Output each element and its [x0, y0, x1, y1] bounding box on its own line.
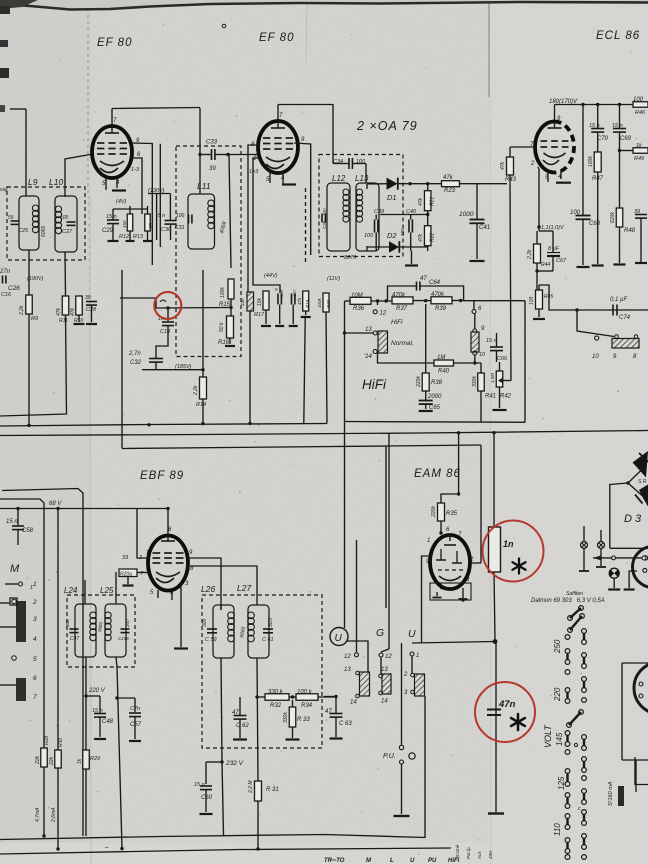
svg-text:47k: 47k — [443, 175, 454, 181]
svg-text:C37: C37 — [292, 289, 297, 297]
svg-text:12: 12 — [344, 654, 351, 660]
svg-text:C66: C66 — [497, 356, 508, 362]
svg-text:3: 3 — [33, 616, 37, 623]
svg-text:10: 10 — [479, 352, 486, 358]
svg-text:R37: R37 — [396, 306, 408, 312]
svg-text:470k: 470k — [392, 293, 406, 299]
svg-text:(44V): (44V) — [264, 273, 278, 279]
svg-text:15 n: 15 n — [194, 782, 205, 788]
svg-text:330k: 330k — [472, 376, 478, 387]
svg-text:10M: 10M — [351, 293, 363, 299]
svg-text:2,6mA: 2,6mA — [51, 807, 57, 823]
svg-text:Saffiten: Saffiten — [566, 591, 583, 597]
svg-text:15 n: 15 n — [6, 519, 18, 525]
svg-text:C30: C30 — [161, 227, 172, 233]
svg-text:C60: C60 — [201, 795, 213, 801]
svg-text:C68: C68 — [589, 221, 601, 227]
svg-text:C69: C69 — [620, 136, 632, 142]
svg-text:15k: 15k — [257, 297, 263, 306]
svg-text:2 ×OA 79: 2 ×OA 79 — [356, 119, 418, 133]
svg-text:4,7mA: 4,7mA — [35, 807, 41, 822]
svg-text:C156: C156 — [118, 636, 129, 641]
svg-text:250: 250 — [553, 639, 562, 654]
svg-text:3C0: 3C0 — [268, 618, 274, 627]
svg-text:13: 13 — [344, 667, 351, 673]
svg-text:100k: 100k — [317, 297, 322, 308]
svg-text:100: 100 — [400, 228, 405, 236]
svg-text:1n: 1n — [503, 539, 514, 549]
svg-text:300: 300 — [65, 619, 70, 627]
svg-text:R11: R11 — [59, 318, 68, 324]
svg-text:G: G — [376, 627, 384, 639]
svg-text:33: 33 — [122, 555, 129, 561]
svg-text:EBF 89: EBF 89 — [140, 470, 184, 482]
svg-text:22k: 22k — [35, 755, 41, 765]
svg-text:R44: R44 — [541, 262, 550, 268]
svg-text:R46: R46 — [635, 110, 646, 116]
svg-text:C 59: C 59 — [205, 637, 217, 643]
svg-text:U: U — [410, 858, 415, 864]
svg-text:EF 80: EF 80 — [259, 32, 294, 44]
svg-text:R39: R39 — [435, 306, 447, 312]
svg-text:C40: C40 — [406, 209, 417, 215]
svg-text:C67: C67 — [556, 258, 567, 264]
svg-text:R21: R21 — [430, 197, 436, 206]
svg-text:R29: R29 — [90, 756, 100, 762]
svg-text:R22: R22 — [430, 233, 436, 242]
svg-text:7: 7 — [33, 694, 37, 701]
svg-text:470k: 470k — [431, 292, 445, 298]
svg-text:D1: D1 — [387, 193, 397, 202]
svg-text:2: 2 — [32, 599, 37, 606]
svg-text:(130V): (130V) — [148, 188, 165, 194]
svg-text:R34: R34 — [301, 703, 313, 709]
svg-text:C33: C33 — [206, 140, 218, 146]
svg-text:1,5M: 1,5M — [490, 373, 495, 383]
svg-text:(190V): (190V) — [27, 276, 44, 282]
svg-text:C48: C48 — [102, 719, 114, 725]
svg-text:S¹160 mA: S¹160 mA — [608, 781, 614, 806]
svg-text:15 n: 15 n — [486, 338, 497, 344]
svg-text:620k: 620k — [610, 212, 616, 223]
svg-text:220 V: 220 V — [88, 688, 106, 694]
svg-text:14: 14 — [350, 700, 357, 706]
svg-text:R23: R23 — [444, 188, 456, 194]
svg-text:2,2 M: 2,2 M — [248, 780, 254, 794]
svg-text:EAM 86: EAM 86 — [414, 468, 461, 480]
svg-text:39: 39 — [85, 295, 91, 301]
svg-text:R42: R42 — [500, 394, 512, 400]
svg-text:L25: L25 — [100, 586, 114, 595]
svg-text:100: 100 — [60, 215, 69, 221]
svg-text:L26: L26 — [201, 584, 215, 594]
svg-text:220: 220 — [553, 687, 562, 702]
svg-text:St:omé: St:omé — [455, 844, 460, 859]
svg-text:47k: 47k — [418, 233, 424, 242]
svg-text:15 n: 15 n — [106, 214, 117, 220]
svg-text:HiFi: HiFi — [362, 377, 387, 392]
svg-text:(11V): (11V) — [327, 276, 340, 282]
svg-text:S R: S R — [638, 479, 647, 485]
svg-text:100k: 100k — [588, 156, 594, 167]
svg-text:100: 100 — [529, 296, 535, 305]
svg-text:6066: 6066 — [41, 226, 47, 237]
svg-text:50 k: 50 k — [219, 322, 225, 332]
svg-text:L11: L11 — [197, 181, 211, 191]
svg-text:R17: R17 — [254, 312, 265, 318]
svg-text:C64: C64 — [429, 280, 441, 286]
svg-text:47: 47 — [420, 276, 427, 282]
svg-text:R40: R40 — [438, 369, 450, 375]
svg-text:D2: D2 — [387, 231, 397, 240]
svg-text:C25: C25 — [18, 228, 29, 234]
svg-text:1,1(1,0)V: 1,1(1,0)V — [541, 225, 565, 231]
svg-text:TR═TO: TR═TO — [324, 858, 345, 864]
svg-text:L27: L27 — [237, 583, 251, 593]
svg-text:R13: R13 — [133, 234, 144, 240]
svg-text:C32: C32 — [130, 360, 142, 366]
svg-text:2,2k: 2,2k — [19, 305, 25, 316]
svg-text:47n: 47n — [498, 699, 516, 710]
svg-text:68 V: 68 V — [49, 501, 62, 507]
svg-text:R 33: R 33 — [297, 717, 310, 723]
svg-text:1-3: 1-3 — [131, 167, 140, 173]
svg-text:1: 1 — [427, 538, 430, 544]
svg-text:R12: R12 — [119, 234, 129, 240]
svg-text:12: 12 — [380, 311, 387, 317]
svg-text:2: 2 — [403, 672, 408, 678]
svg-text:100: 100 — [364, 233, 374, 239]
svg-text:2,2k: 2,2k — [527, 249, 533, 260]
svg-text:55: 55 — [8, 215, 14, 221]
svg-text:M: M — [10, 563, 20, 575]
svg-text:R41: R41 — [485, 394, 496, 400]
svg-text:(4V): (4V) — [116, 199, 127, 205]
svg-text:R 31: R 31 — [266, 787, 279, 793]
svg-text:VOLT: VOLT — [543, 724, 553, 748]
svg-text:0,1 µF: 0,1 µF — [610, 297, 627, 303]
svg-text:R19: R19 — [305, 299, 310, 308]
svg-text:Normal.: Normal. — [391, 340, 414, 347]
svg-text:10: 10 — [592, 354, 599, 360]
svg-text:R38: R38 — [431, 380, 443, 386]
svg-text:R20a: R20a — [120, 572, 132, 578]
svg-text:145: 145 — [555, 732, 564, 746]
svg-text:125: 125 — [557, 776, 566, 790]
svg-text:8070: 8070 — [344, 255, 357, 261]
svg-text:330k: 330k — [283, 712, 289, 723]
svg-text:100: 100 — [322, 208, 327, 216]
svg-text:1: 1 — [33, 581, 37, 588]
svg-text:4: 4 — [440, 586, 443, 592]
svg-text:1000: 1000 — [459, 211, 474, 218]
svg-text:Dalmon 69 303 6,3 V 0,5A: Dalmon 69 303 6,3 V 0,5A — [531, 598, 605, 604]
svg-text:2,2k: 2,2k — [193, 385, 199, 396]
svg-text:100: 100 — [176, 213, 185, 219]
svg-text:'14: '14 — [364, 354, 372, 360]
svg-text:47k: 47k — [418, 197, 424, 206]
svg-text:(185V): (185V) — [175, 364, 192, 370]
svg-text:L24: L24 — [64, 586, 78, 595]
svg-text:C74: C74 — [619, 315, 631, 321]
svg-text:C 63: C 63 — [339, 721, 352, 727]
svg-text:R35: R35 — [446, 511, 458, 517]
svg-text:1k: 1k — [77, 758, 83, 764]
svg-text:1: 1 — [30, 585, 33, 591]
svg-text:200: 200 — [125, 619, 130, 628]
svg-text:300: 300 — [202, 618, 208, 627]
svg-text:47k: 47k — [56, 307, 62, 316]
svg-text:C 62: C 62 — [236, 723, 249, 729]
svg-text:C39: C39 — [374, 209, 384, 215]
svg-text:L: L — [390, 858, 394, 864]
svg-text:R36: R36 — [353, 306, 365, 312]
svg-text:4: 4 — [33, 636, 37, 643]
svg-text:1=3: 1=3 — [249, 169, 259, 175]
svg-text:2,7n: 2,7n — [128, 351, 141, 357]
svg-text:L10: L10 — [49, 177, 63, 187]
svg-text:ECL 86: ECL 86 — [596, 30, 640, 42]
svg-text:C 61: C 61 — [262, 637, 274, 643]
svg-text:5 n: 5 n — [158, 213, 166, 219]
svg-text:C26: C26 — [8, 285, 20, 292]
svg-text:29: 29 — [148, 222, 153, 229]
svg-text:C31: C31 — [175, 225, 185, 231]
svg-text:47k: 47k — [70, 307, 76, 316]
svg-text:P.U.: P.U. — [383, 753, 396, 760]
svg-text:HiFi: HiFi — [391, 319, 403, 326]
svg-text:C29: C29 — [102, 228, 114, 234]
svg-text:C7n: C7n — [130, 706, 140, 712]
svg-text:220k: 220k — [416, 376, 422, 388]
svg-text:13: 13 — [365, 327, 372, 333]
svg-text:L13: L13 — [355, 174, 369, 183]
svg-text:R9: R9 — [31, 316, 38, 322]
svg-text:1: 1 — [416, 653, 419, 659]
svg-text:14: 14 — [381, 699, 388, 705]
svg-text:2: 2 — [530, 161, 535, 167]
svg-text:EF 80: EF 80 — [97, 37, 132, 49]
svg-text:U: U — [335, 633, 343, 644]
svg-text:R49: R49 — [634, 156, 644, 162]
svg-text:12: 12 — [385, 654, 392, 660]
svg-text:D 3: D 3 — [624, 513, 642, 525]
svg-text:2: 2 — [138, 555, 142, 561]
svg-text:110: 110 — [553, 823, 562, 836]
svg-text:2000: 2000 — [427, 394, 442, 400]
svg-text:L9: L9 — [28, 177, 38, 187]
svg-text:R28: R28 — [44, 736, 50, 745]
svg-text:R48: R48 — [624, 228, 636, 234]
svg-text:C36: C36 — [322, 220, 327, 229]
svg-text:C47: C47 — [70, 636, 79, 642]
svg-text:13: 13 — [381, 667, 388, 673]
svg-text:R14: R14 — [196, 402, 206, 408]
svg-text:330: 330 — [240, 298, 245, 306]
svg-text:27n: 27n — [0, 269, 11, 275]
svg-text:43H: 43H — [488, 850, 493, 859]
svg-text:L12: L12 — [332, 174, 346, 183]
svg-text:Aus: Aus — [477, 850, 482, 860]
svg-text:C41: C41 — [479, 225, 490, 231]
svg-text:C35: C35 — [279, 289, 284, 297]
svg-text:R43: R43 — [505, 177, 517, 183]
svg-text:R20: R20 — [326, 299, 331, 308]
svg-text:47k: 47k — [297, 297, 302, 305]
svg-text:220k: 220k — [431, 506, 437, 518]
svg-text:1: 1 — [146, 550, 149, 556]
svg-text:R30: R30 — [58, 738, 64, 747]
svg-text:100k: 100k — [220, 287, 226, 298]
svg-text:C16: C16 — [1, 292, 12, 298]
svg-text:C57: C57 — [130, 722, 142, 728]
svg-text:PU: PU — [428, 858, 437, 864]
svg-text:c: c — [578, 806, 581, 812]
svg-text:R15: R15 — [219, 302, 231, 308]
svg-text:39: 39 — [209, 166, 216, 172]
svg-text:8 µF: 8 µF — [548, 246, 560, 252]
svg-text:U: U — [408, 628, 416, 640]
svg-text:Par.lp: Par.lp — [466, 847, 471, 859]
svg-text:R32: R32 — [270, 703, 282, 709]
svg-text:5: 5 — [33, 656, 37, 663]
svg-text:C58: C58 — [22, 528, 34, 534]
svg-text:22k: 22k — [49, 756, 55, 766]
svg-text:150: 150 — [122, 220, 127, 228]
svg-text:232 V: 232 V — [225, 760, 244, 767]
svg-text:C27: C27 — [62, 229, 73, 235]
svg-text:47k: 47k — [500, 161, 506, 170]
svg-text:–: – — [104, 845, 109, 851]
svg-text:C70: C70 — [597, 136, 609, 142]
svg-text:6: 6 — [33, 675, 37, 682]
